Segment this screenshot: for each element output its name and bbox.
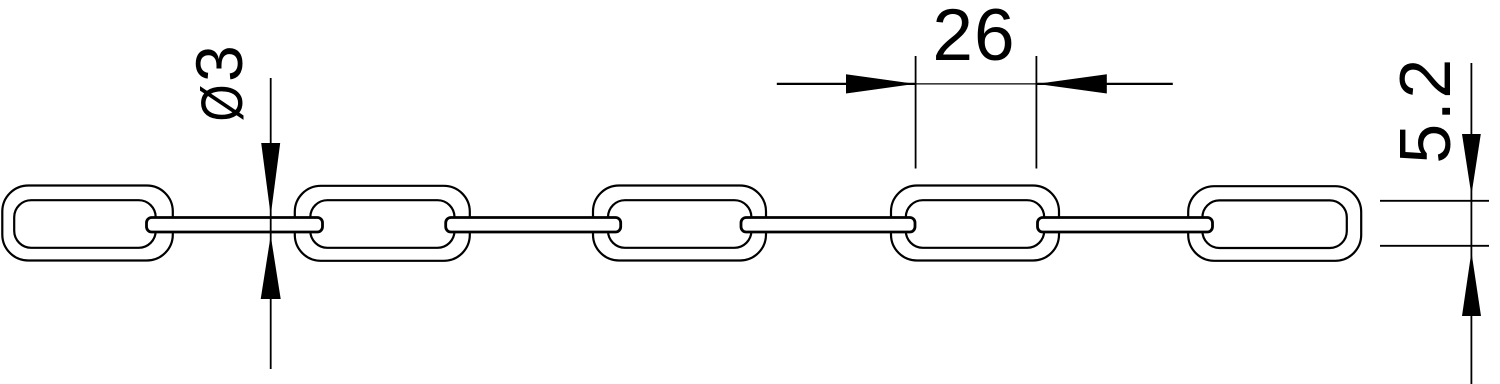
arrow 26 left xyxy=(846,74,915,93)
arrow 26 right xyxy=(1037,74,1107,93)
chain link L3 inner xyxy=(608,200,751,248)
dimension line 26 left segment xyxy=(777,83,916,85)
dimension line 5.2 vertical xyxy=(1470,63,1472,384)
chain link L3 outer xyxy=(593,186,766,261)
chain link L1 inner xyxy=(14,200,156,248)
dimension line 26 middle segment xyxy=(916,83,1037,85)
arrow ø3 top xyxy=(261,143,280,216)
chain link L1 outer xyxy=(2,186,173,261)
extension line 26 right xyxy=(1035,56,1037,169)
arrow ø3 bottom xyxy=(261,236,281,300)
connector bar B4 xyxy=(1038,218,1213,233)
chain link L4 outer xyxy=(891,186,1059,261)
chain link L5 inner xyxy=(1202,200,1346,248)
extension line 5.2 top xyxy=(1380,200,1489,202)
chain link L5 outer xyxy=(1188,186,1361,261)
arrow 5.2 bottom xyxy=(1462,252,1481,316)
arrow 5.2 top xyxy=(1462,134,1481,195)
chain link L2 inner xyxy=(310,200,454,248)
svg-text:26: 26 xyxy=(932,0,1015,76)
extension line 26 left xyxy=(915,56,917,169)
dimension line 26 right segment xyxy=(1036,83,1172,85)
chain link L4 inner xyxy=(906,200,1044,248)
extension line 5.2 bottom xyxy=(1380,245,1489,247)
dimension line ø3 vertical xyxy=(270,78,272,369)
svg-text:5.2: 5.2 xyxy=(1386,56,1466,164)
connector bar B3 xyxy=(741,218,915,233)
svg-text:Ø: Ø xyxy=(191,85,256,122)
svg-text:3: 3 xyxy=(182,45,256,82)
chain link L2 outer xyxy=(295,186,470,261)
connector bar B1 xyxy=(147,218,323,233)
connector bar B2 xyxy=(446,218,621,233)
